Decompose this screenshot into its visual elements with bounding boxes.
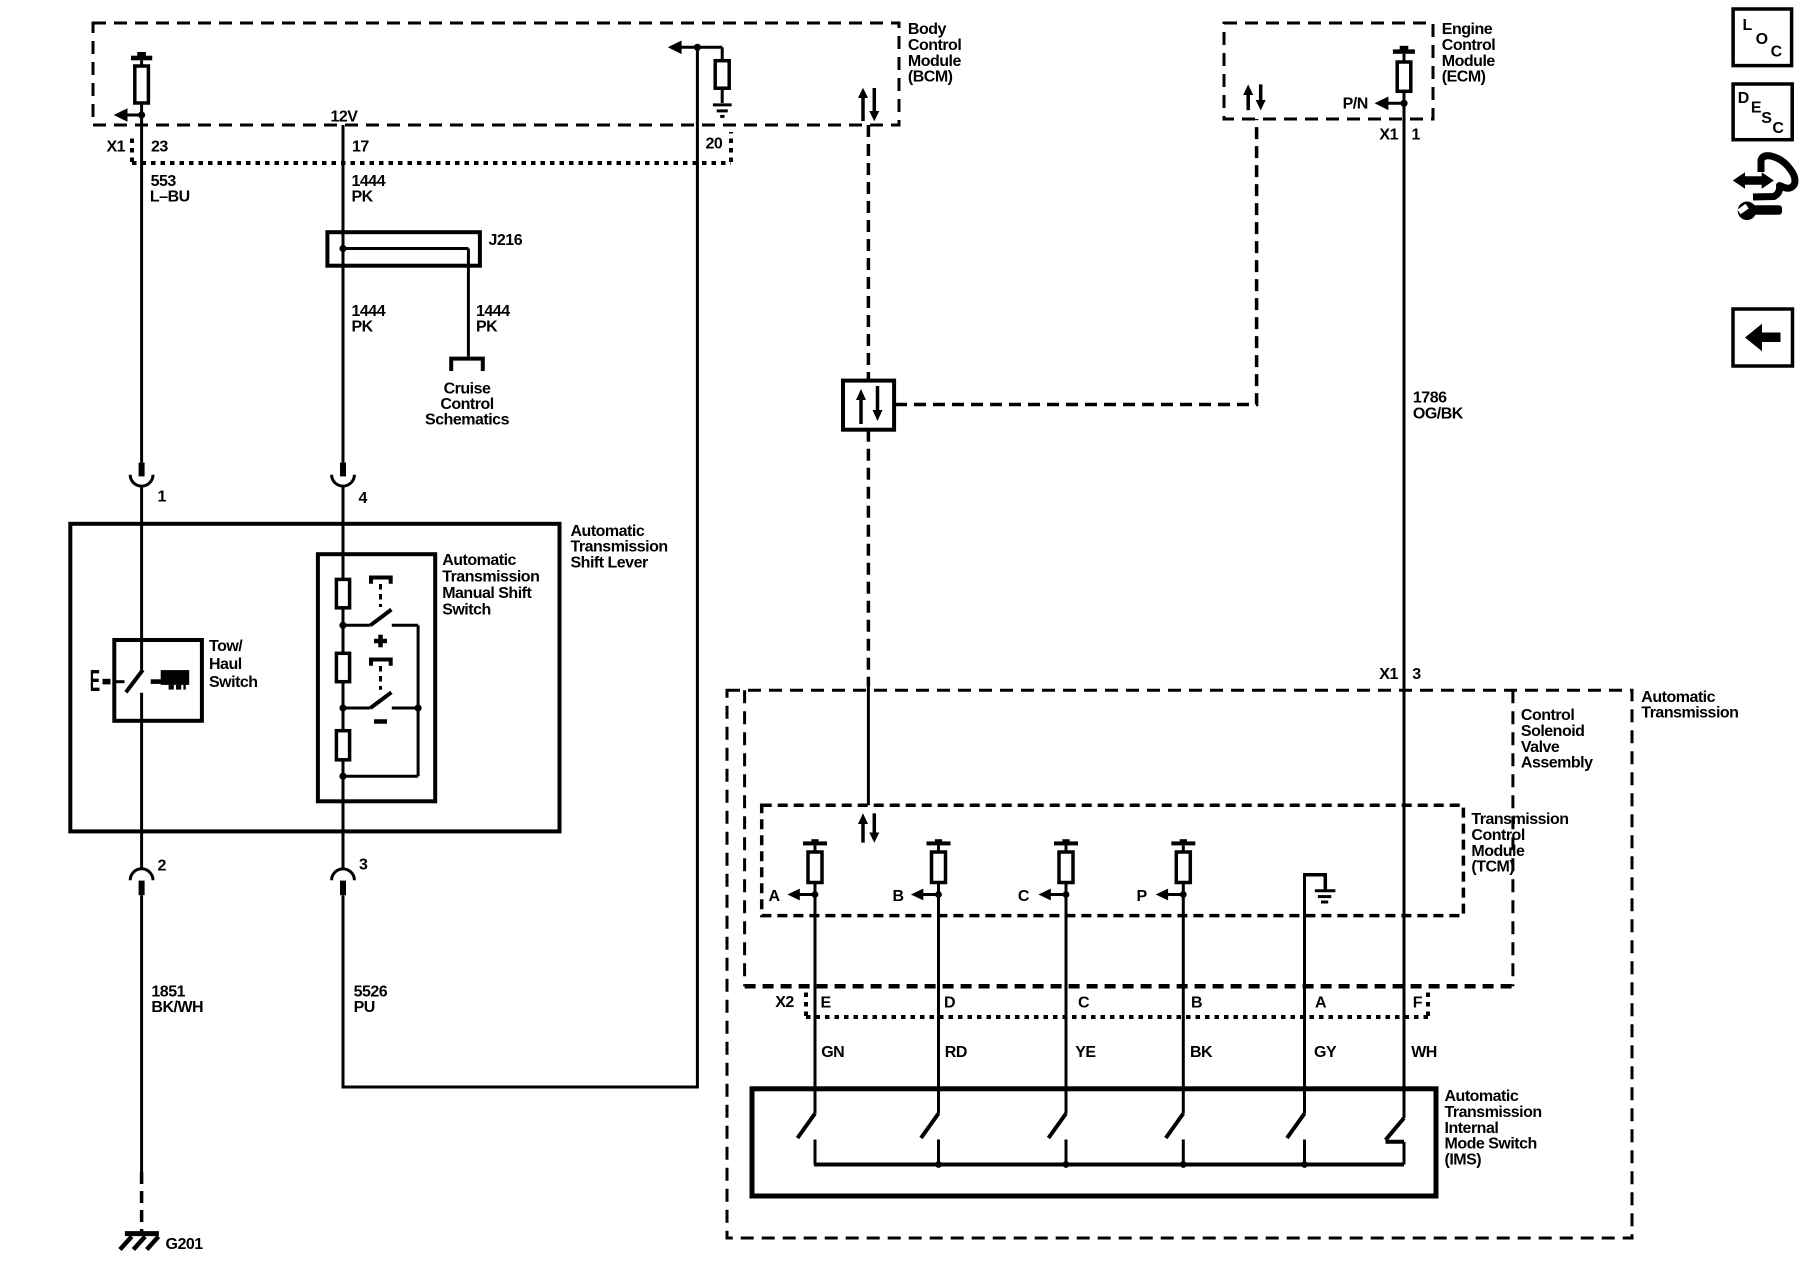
svg-text:20: 20 — [706, 135, 723, 152]
Automatic Transmission Manual Shift Switch box — [318, 554, 435, 801]
node: lower tap junction dot — [339, 704, 346, 711]
node: solenoid C junction dot — [1063, 891, 1070, 898]
IMS switch A blade — [1287, 1114, 1305, 1165]
arrow C — [1038, 889, 1066, 901]
svg-text:B: B — [893, 888, 904, 905]
tow/haul label — [209, 638, 258, 691]
svg-text:23: 23 — [151, 139, 168, 156]
svg-text:Automatic: Automatic — [1445, 1088, 1519, 1105]
node: solenoid P junction dot — [1180, 891, 1187, 898]
wire pin3 to BCM pin20 — [343, 47, 697, 1087]
wire R3 to pin3 — [342, 760, 345, 869]
svg-text:Assembly: Assembly — [1521, 755, 1593, 772]
wire label 5526 PU — [354, 984, 388, 1017]
svg-text:P: P — [1137, 888, 1148, 905]
IMS label — [1445, 1088, 1542, 1168]
node: bottom junction dot — [339, 773, 346, 780]
wire label 1851 BK/WH — [151, 984, 203, 1017]
svg-text:A: A — [769, 888, 781, 905]
Automatic Transmission Shift Lever box — [70, 524, 559, 832]
solenoid driver C — [1054, 839, 1078, 894]
svg-text:Control: Control — [908, 37, 961, 54]
svg-text:YE: YE — [1075, 1044, 1096, 1061]
svg-text:(BCM): (BCM) — [908, 69, 953, 86]
arrow P — [1156, 889, 1184, 901]
minus (downshift) momentary switch — [343, 660, 418, 709]
svg-text:Module: Module — [1471, 843, 1525, 860]
wire solenoid P down to IMS — [1182, 895, 1185, 1114]
fuse in ECM — [1393, 46, 1415, 104]
shift lever label — [571, 523, 668, 572]
tow/haul switch blade — [126, 670, 143, 692]
IMS switch E blade — [798, 1114, 816, 1165]
svg-text:Valve: Valve — [1521, 739, 1560, 756]
wire label 1786 OG/BK — [1413, 389, 1464, 422]
serial data dashed wire from BCM down — [867, 125, 871, 381]
DESC icon box — [1733, 84, 1792, 140]
wire R2 to R3 — [342, 682, 345, 731]
svg-text:Schematics: Schematics — [425, 412, 510, 429]
svg-text:Body: Body — [908, 21, 947, 38]
node: ECM output junction dot — [1400, 100, 1407, 107]
ground G201 — [120, 1234, 159, 1250]
svg-text:2: 2 — [158, 857, 167, 874]
svg-text:RD: RD — [945, 1044, 967, 1061]
ECM label — [1442, 21, 1496, 85]
svg-text:PK: PK — [352, 319, 374, 336]
svg-text:Cruise: Cruise — [444, 381, 491, 398]
svg-text:Automatic: Automatic — [1641, 689, 1715, 706]
IMS box (internal mode switch) — [752, 1089, 1436, 1196]
serial data arrows inside BCM — [858, 88, 879, 121]
wire pin2 to ground — [140, 895, 143, 1172]
svg-text:E: E — [90, 665, 100, 699]
plus (upshift) momentary switch — [343, 578, 418, 626]
wire solenoid B down to IMS — [937, 895, 940, 1114]
svg-text:X2: X2 — [775, 994, 794, 1011]
svg-text:D: D — [944, 994, 955, 1011]
svg-text:3: 3 — [359, 857, 368, 874]
wire solenoid C down to IMS — [1065, 895, 1068, 1114]
svg-text:Solenoid: Solenoid — [1521, 723, 1585, 740]
Tow/Haul Switch box — [114, 640, 202, 721]
svg-text:Control: Control — [440, 396, 493, 413]
svg-text:1786: 1786 — [1413, 389, 1447, 406]
svg-text:J216: J216 — [489, 232, 523, 249]
svg-text:D: D — [1738, 90, 1749, 107]
svg-text:PK: PK — [476, 319, 498, 336]
transmission pin labels X1 3 — [1379, 666, 1421, 683]
arrow B — [911, 889, 939, 901]
ground symbol inside BCM — [713, 105, 732, 117]
svg-text:Shift Lever: Shift Lever — [571, 555, 648, 572]
resistor R2 — [336, 653, 349, 681]
TCM internal ground symbol — [1303, 875, 1335, 902]
E dash — [103, 679, 111, 685]
svg-text:Switch: Switch — [442, 602, 491, 619]
cruise control reference label — [425, 381, 510, 429]
svg-text:(IMS): (IMS) — [1445, 1151, 1482, 1168]
serial data dashed wire junction box down to transmission — [867, 430, 871, 686]
node: upper tap junction dot — [339, 622, 346, 629]
svg-text:C: C — [1018, 888, 1030, 905]
resistor R3 — [336, 731, 349, 760]
svg-text:Automatic: Automatic — [571, 523, 645, 540]
automatic transmission label — [1641, 689, 1738, 722]
svg-text:Transmission: Transmission — [1641, 705, 1738, 722]
wire R1 to R2 — [342, 608, 345, 654]
BCM label — [908, 21, 962, 85]
svg-text:L–BU: L–BU — [150, 188, 190, 205]
svg-text:1851: 1851 — [151, 984, 185, 1001]
LOC icon box — [1733, 9, 1792, 66]
node: J216 junction dot — [339, 245, 346, 252]
svg-text:1: 1 — [158, 489, 167, 506]
svg-text:Transmission: Transmission — [1471, 811, 1568, 828]
X2 connector dotted line — [806, 992, 1428, 1017]
svg-text:GN: GN — [821, 1044, 844, 1061]
node: BCM pin23 junction dot — [138, 111, 145, 118]
svg-text:Module: Module — [1442, 53, 1496, 70]
svg-text:B: B — [1191, 994, 1202, 1011]
svg-text:Internal: Internal — [1445, 1120, 1499, 1137]
connector pin 2 (in-line connector) — [130, 869, 153, 895]
solenoid driver P — [1171, 839, 1195, 894]
Automatic Transmission outer box — [727, 690, 1632, 1238]
wire BCM fuse to junction — [140, 103, 143, 115]
node: solenoid A junction dot — [812, 891, 819, 898]
svg-text:1444: 1444 — [352, 173, 386, 190]
IMS switch C blade — [1049, 1114, 1067, 1165]
svg-text:Mode Switch: Mode Switch — [1445, 1136, 1537, 1153]
wire solenoid A down to IMS — [814, 895, 817, 1114]
node: minus tap on return wire — [415, 704, 422, 711]
TCM label — [1471, 811, 1568, 875]
svg-text:1444: 1444 — [476, 303, 510, 320]
IMS switch D blade — [921, 1114, 939, 1165]
svg-text:Manual Shift: Manual Shift — [442, 585, 532, 602]
wire BCM pin23 down to connector pin1 — [140, 115, 143, 463]
svg-text:P/N: P/N — [1343, 96, 1368, 113]
serial data solid segment inside transmission — [867, 686, 870, 805]
TCM box (Transmission Control Module) — [762, 805, 1464, 915]
bottom tie wire — [343, 775, 418, 778]
svg-text:X1: X1 — [107, 139, 126, 156]
X1 connector dotted line under BCM — [132, 132, 731, 163]
svg-text:X1: X1 — [1379, 127, 1398, 144]
node: BCM pin20 junction dot — [694, 44, 701, 51]
serial data junction box — [843, 381, 894, 430]
svg-text:O: O — [1756, 31, 1768, 48]
dashed ground lead — [140, 1172, 144, 1232]
svg-text:C: C — [1771, 43, 1783, 60]
svg-text:12V: 12V — [331, 109, 359, 126]
arrow to BCM internal (left) — [114, 108, 142, 122]
serial data arrows inside ECM — [1243, 84, 1266, 110]
svg-text:Control: Control — [1521, 707, 1574, 724]
svg-text:OG/BK: OG/BK — [1413, 405, 1464, 422]
svg-text:3: 3 — [1412, 666, 1421, 683]
control solenoid valve assembly label — [1521, 707, 1593, 771]
svg-text:S: S — [1761, 110, 1772, 127]
svg-text:F: F — [1413, 994, 1423, 1011]
wire pin1 to tow/haul switch — [140, 486, 143, 669]
svg-text:Transmission: Transmission — [1445, 1104, 1542, 1121]
svg-text:Control: Control — [1471, 827, 1524, 844]
svg-text:Control: Control — [1442, 37, 1495, 54]
svg-text:PK: PK — [352, 188, 374, 205]
arrow to P/N — [1375, 97, 1404, 111]
solenoid driver B — [927, 839, 951, 894]
svg-text:Switch: Switch — [209, 674, 258, 691]
svg-text:G201: G201 — [166, 1236, 204, 1253]
node: bus junction dots — [935, 1161, 1308, 1168]
svg-text:17: 17 — [352, 139, 369, 156]
arrow A — [787, 889, 815, 901]
tow/haul actuation stub — [115, 680, 125, 683]
svg-text:Transmission: Transmission — [571, 539, 668, 556]
svg-text:C: C — [1078, 994, 1090, 1011]
BCM module box (Body Control Module) — [93, 23, 899, 125]
BCM internal resistor to ground (pin20 branch) — [668, 41, 729, 104]
svg-text:Transmission: Transmission — [442, 569, 539, 586]
node: solenoid B junction dot — [935, 891, 942, 898]
wire BCM pin17 down to connector pin4 — [342, 125, 345, 463]
plus symbol — [374, 635, 387, 648]
svg-text:L: L — [1743, 17, 1753, 34]
J216 splice pack — [327, 232, 480, 356]
wire label 1444 PK branch — [476, 303, 510, 336]
svg-text:PU: PU — [354, 999, 375, 1016]
wire pin4 into switch — [342, 486, 345, 579]
connector pin 4 (in-line connector) — [332, 463, 355, 486]
svg-text:BK/WH: BK/WH — [151, 999, 203, 1016]
ECM module box (Engine Control Module) — [1224, 23, 1433, 119]
IMS common bus wire — [814, 1163, 1404, 1167]
back arrow icon box — [1733, 309, 1793, 366]
truck icon — [151, 670, 190, 690]
svg-text:GY: GY — [1314, 1044, 1337, 1061]
svg-text:(TCM): (TCM) — [1471, 859, 1514, 876]
wire tow/haul to pin2 — [140, 693, 143, 869]
svg-text:Automatic: Automatic — [442, 552, 516, 569]
solenoid driver A — [803, 839, 827, 894]
wire label 1444 PK lower left — [352, 303, 386, 336]
minus symbol — [374, 719, 387, 724]
connector pin 3 (in-line connector) — [332, 869, 355, 895]
svg-text:E: E — [821, 994, 832, 1011]
svg-text:C: C — [1772, 120, 1784, 137]
resistor R1 — [336, 579, 349, 607]
svg-text:1: 1 — [1412, 127, 1421, 144]
Control Solenoid Valve Assembly box — [745, 690, 1513, 986]
off-page connector bracket to cruise control — [451, 359, 483, 371]
svg-text:Haul: Haul — [209, 656, 242, 673]
right return wire of switch — [417, 625, 420, 776]
svg-text:BK: BK — [1190, 1044, 1213, 1061]
svg-text:5526: 5526 — [354, 984, 388, 1001]
fuse in BCM left leg — [131, 52, 152, 103]
IMS switch B blade — [1166, 1114, 1184, 1165]
wire label 553 L-BU — [150, 173, 190, 206]
svg-text:4: 4 — [359, 490, 368, 507]
svg-text:(ECM): (ECM) — [1442, 69, 1486, 86]
IMS switch F blade (closed) — [1386, 1118, 1405, 1165]
svg-text:Tow/: Tow/ — [209, 638, 243, 655]
svg-text:WH: WH — [1411, 1044, 1437, 1061]
wire label 1444 PK upper — [352, 173, 386, 206]
svg-text:1444: 1444 — [352, 303, 386, 320]
ground wire down to IMS — [1303, 875, 1306, 1114]
svg-text:X1: X1 — [1379, 666, 1398, 683]
serial data arrows inside TCM — [858, 813, 879, 843]
E actuator label — [90, 665, 100, 699]
diagnostic jump icon (arrows and wrench) — [1733, 156, 1795, 220]
svg-text:553: 553 — [151, 173, 177, 190]
ECM wire X1-1 down to transmission — [1403, 103, 1406, 1118]
svg-text:A: A — [1315, 994, 1327, 1011]
svg-text:Module: Module — [908, 53, 962, 70]
connector pin 1 (in-line connector) — [130, 463, 153, 487]
serial data dashed branch to ECM — [895, 119, 1257, 405]
ECM pin labels X1 1 — [1379, 127, 1420, 144]
svg-text:Engine: Engine — [1442, 21, 1493, 38]
manual shift switch label — [442, 552, 539, 619]
